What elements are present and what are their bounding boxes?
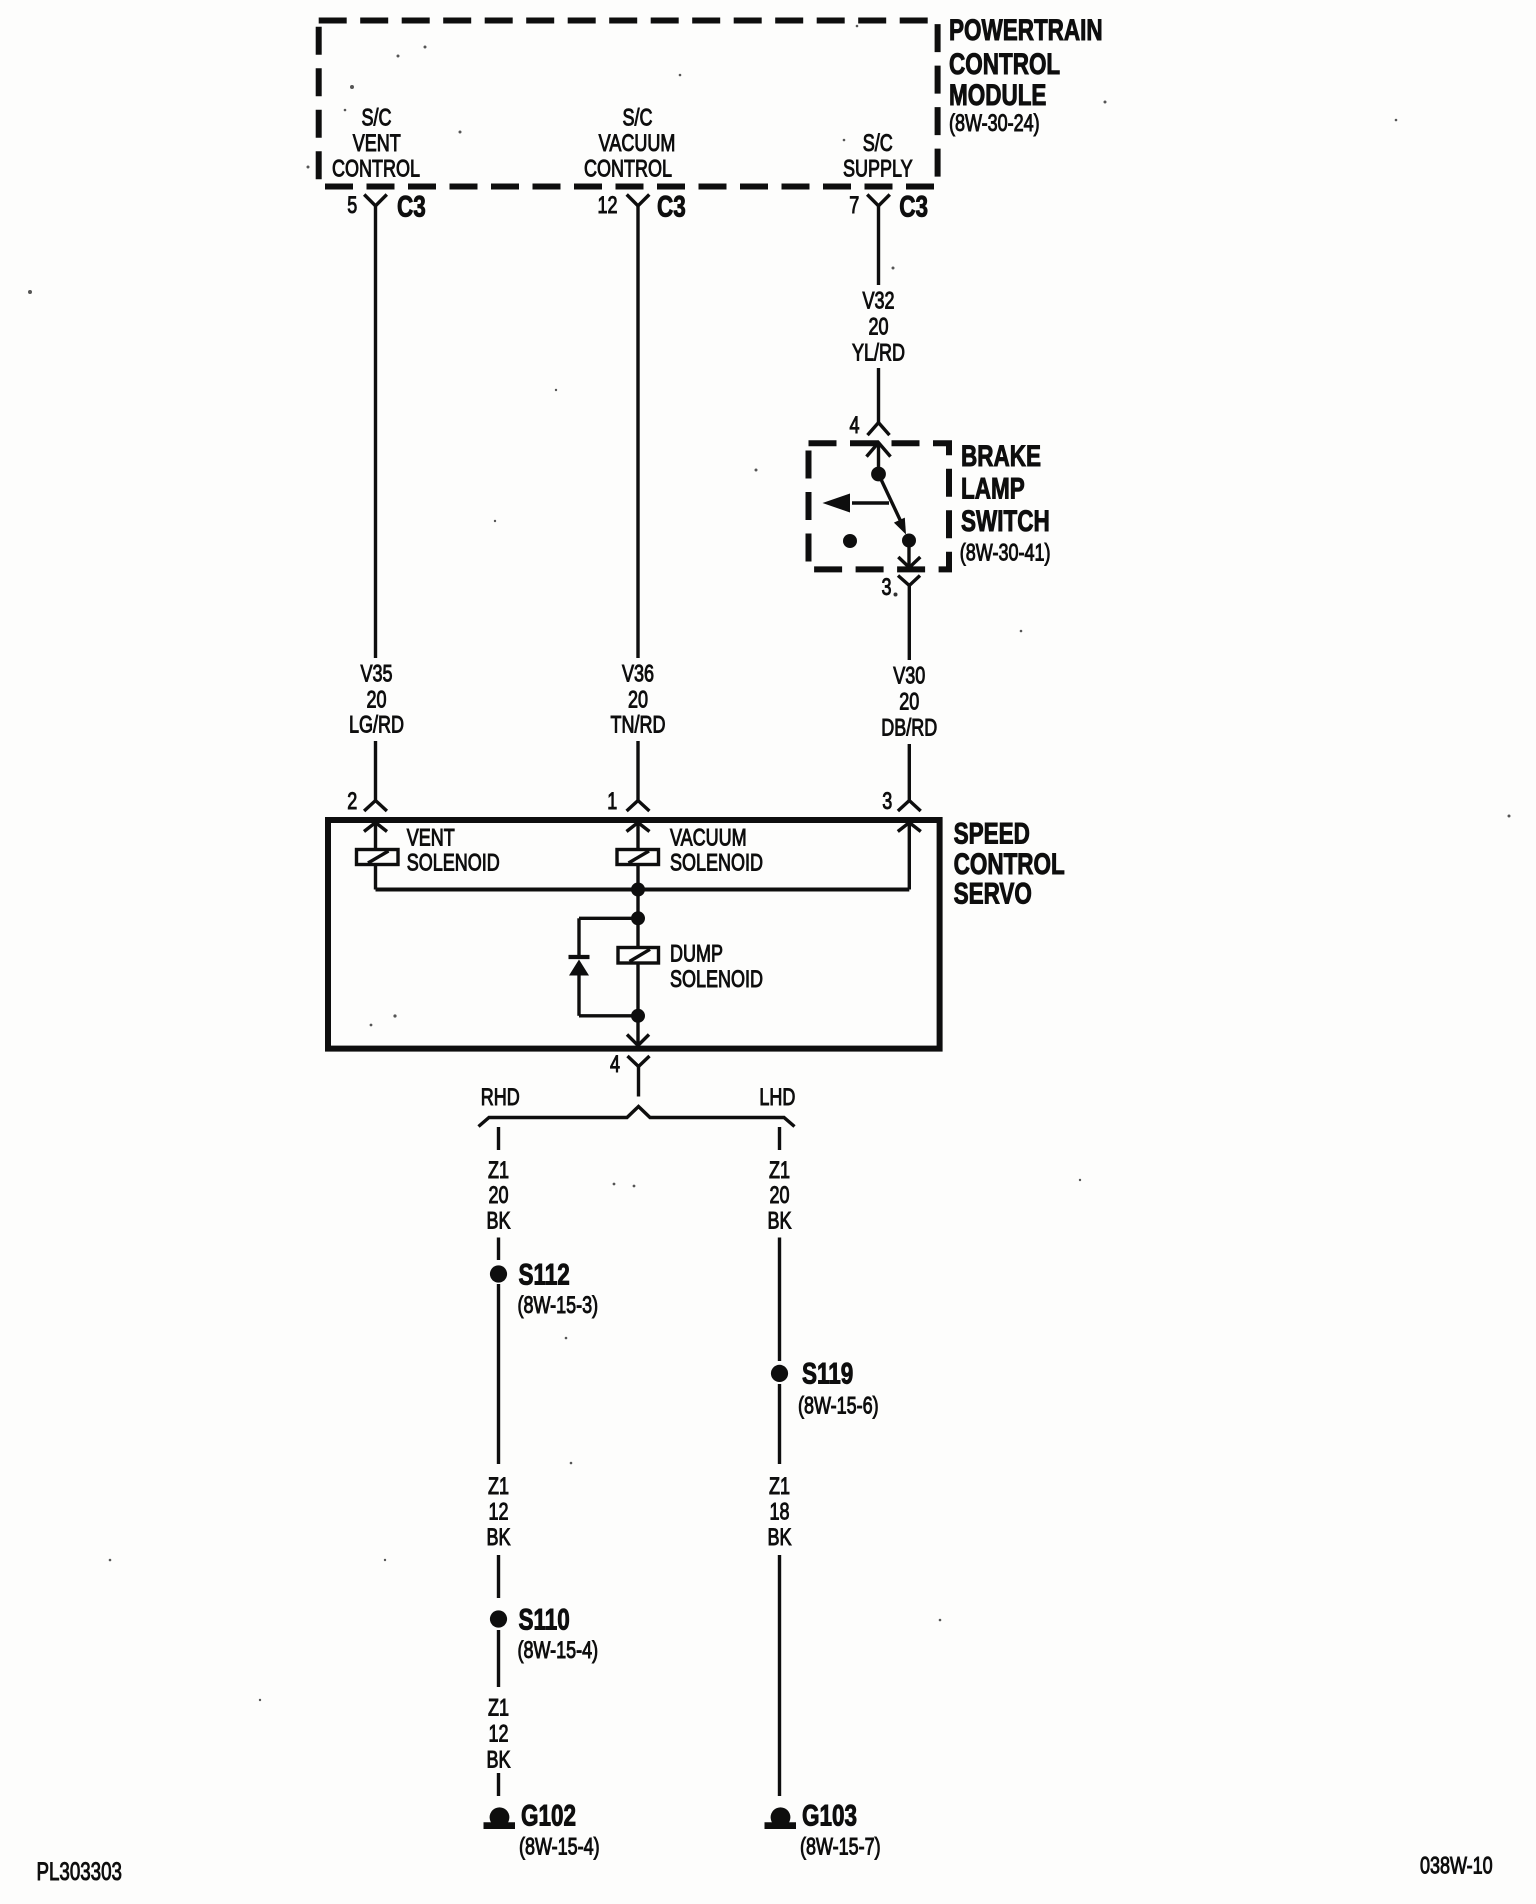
svg-text:3: 3 xyxy=(882,789,892,815)
svg-text:YL/RD: YL/RD xyxy=(852,340,905,366)
svg-text:SUPPLY: SUPPLY xyxy=(843,156,913,182)
svg-text:TN/RD: TN/RD xyxy=(611,712,666,738)
svg-text:C3: C3 xyxy=(657,189,686,223)
svg-text:1: 1 xyxy=(607,789,617,815)
svg-text:S/C: S/C xyxy=(361,105,391,131)
svg-text:V32: V32 xyxy=(862,288,894,314)
svg-text:4: 4 xyxy=(849,413,859,439)
svg-text:VENT: VENT xyxy=(407,825,455,851)
svg-text:VENT: VENT xyxy=(353,131,401,157)
svg-text:CONTROL: CONTROL xyxy=(949,47,1060,81)
svg-text:SPEED: SPEED xyxy=(954,816,1030,850)
svg-text:Z1: Z1 xyxy=(769,1157,790,1183)
svg-text:LAMP: LAMP xyxy=(961,471,1025,505)
svg-text:S119: S119 xyxy=(802,1356,853,1390)
svg-text:SERVO: SERVO xyxy=(954,876,1032,910)
svg-text:V36: V36 xyxy=(622,661,654,687)
svg-text:(8W-15-7): (8W-15-7) xyxy=(800,1834,881,1860)
svg-text:G103: G103 xyxy=(802,1798,857,1832)
svg-text:Z1: Z1 xyxy=(488,1695,509,1721)
svg-text:G102: G102 xyxy=(521,1798,576,1832)
svg-text:C3: C3 xyxy=(899,189,928,223)
svg-text:12: 12 xyxy=(488,1721,508,1747)
svg-text:BK: BK xyxy=(486,1525,510,1551)
svg-text:Z1: Z1 xyxy=(488,1474,509,1500)
svg-text:(8W-30-24): (8W-30-24) xyxy=(949,111,1040,137)
svg-text:CONTROL: CONTROL xyxy=(584,156,672,182)
svg-text:BK: BK xyxy=(767,1525,791,1551)
svg-text:S/C: S/C xyxy=(863,131,893,157)
svg-text:RHD: RHD xyxy=(481,1085,520,1111)
svg-text:7: 7 xyxy=(849,193,859,219)
svg-text:3: 3 xyxy=(881,575,891,601)
svg-text:SOLENOID: SOLENOID xyxy=(670,967,763,993)
svg-text:SOLENOID: SOLENOID xyxy=(670,850,763,876)
svg-text:S110: S110 xyxy=(519,1602,570,1636)
svg-text:PL303303: PL303303 xyxy=(37,1857,122,1885)
svg-text:(8W-30-41): (8W-30-41) xyxy=(960,540,1051,566)
svg-text:20: 20 xyxy=(488,1183,508,1209)
svg-text:20: 20 xyxy=(628,687,648,713)
svg-text:VACUUM: VACUUM xyxy=(670,825,747,851)
svg-text:BRAKE: BRAKE xyxy=(961,439,1041,473)
svg-text:Z1: Z1 xyxy=(769,1474,790,1500)
svg-text:20: 20 xyxy=(366,687,386,713)
svg-text:C3: C3 xyxy=(397,189,426,223)
svg-text:S112: S112 xyxy=(519,1257,570,1291)
svg-text:BK: BK xyxy=(486,1208,510,1234)
svg-text:CONTROL: CONTROL xyxy=(332,156,420,182)
svg-text:LG/RD: LG/RD xyxy=(349,712,404,738)
svg-text:S/C: S/C xyxy=(622,105,652,131)
svg-text:18: 18 xyxy=(769,1499,789,1525)
svg-text:Z1: Z1 xyxy=(488,1157,509,1183)
svg-text:5: 5 xyxy=(347,193,357,219)
svg-text:BK: BK xyxy=(767,1208,791,1234)
svg-text:BK: BK xyxy=(486,1747,510,1773)
svg-text:20: 20 xyxy=(769,1183,789,1209)
svg-text:SOLENOID: SOLENOID xyxy=(407,850,500,876)
svg-text:SWITCH: SWITCH xyxy=(961,504,1050,538)
svg-text:038W-10: 038W-10 xyxy=(1420,1853,1493,1879)
svg-text:(8W-15-4): (8W-15-4) xyxy=(518,1638,599,1664)
svg-text:LHD: LHD xyxy=(759,1085,795,1111)
svg-text:(8W-15-3): (8W-15-3) xyxy=(518,1293,599,1319)
svg-text:VACUUM: VACUUM xyxy=(599,131,676,157)
svg-text:12: 12 xyxy=(488,1499,508,1525)
svg-text:2: 2 xyxy=(347,789,357,815)
svg-text:POWERTRAIN: POWERTRAIN xyxy=(949,13,1103,47)
svg-text:(8W-15-4): (8W-15-4) xyxy=(519,1834,600,1860)
svg-text:DB/RD: DB/RD xyxy=(881,715,937,741)
svg-text:V30: V30 xyxy=(893,663,925,689)
svg-text:12: 12 xyxy=(597,193,617,219)
svg-text:20: 20 xyxy=(899,689,919,715)
svg-text:DUMP: DUMP xyxy=(670,941,723,967)
svg-text:20: 20 xyxy=(868,314,888,340)
svg-text:(8W-15-6): (8W-15-6) xyxy=(798,1393,879,1419)
svg-text:MODULE: MODULE xyxy=(949,78,1046,112)
svg-text:4: 4 xyxy=(610,1052,620,1078)
svg-text:V35: V35 xyxy=(360,661,392,687)
